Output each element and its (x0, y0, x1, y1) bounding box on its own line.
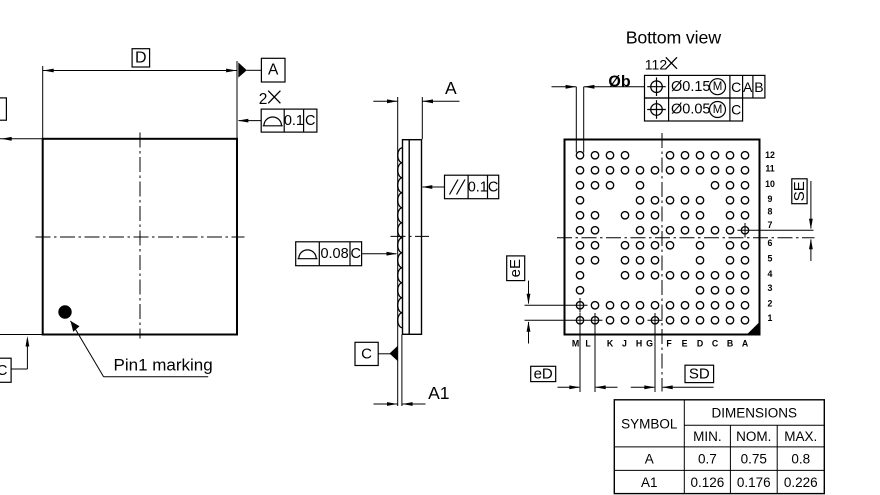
svg-text:0.75: 0.75 (741, 452, 767, 467)
top view horizontal centerline (36, 236, 245, 238)
position tolerance frame 0.15 M C A B (645, 75, 765, 98)
dimension D line (43, 70, 237, 72)
svg-text:SE: SE (791, 181, 808, 201)
svg-text:2: 2 (768, 298, 773, 308)
svg-text:0.8: 0.8 (791, 452, 810, 467)
svg-text:11: 11 (765, 163, 774, 173)
svg-text:9: 9 (768, 194, 773, 204)
side view solder balls (scallops) (398, 148, 403, 328)
dimension D label box (132, 49, 150, 67)
svg-text:0.1: 0.1 (284, 113, 304, 129)
svg-text:A: A (743, 79, 753, 95)
pin1 marking leader (71, 321, 104, 377)
pin1 marking dot (58, 305, 71, 318)
ball G1 crosshair and extension line (654, 313, 656, 392)
dimension SD line and arrows (631, 386, 655, 388)
svg-text:8: 8 (768, 206, 773, 216)
dimensions table (614, 400, 824, 494)
ball M2 crosshair and eE reference line (579, 298, 581, 313)
svg-text:Pin1 marking: Pin1 marking (114, 356, 213, 375)
svg-text:Bottom view: Bottom view (626, 27, 722, 47)
cut-off label box at left edge (top) (0, 98, 6, 120)
svg-text:Ø0.05: Ø0.05 (671, 102, 711, 118)
svg-text:0.1: 0.1 (468, 179, 488, 195)
ball grid (112 balls) (576, 152, 748, 324)
ball M1 crosshair and extension lines (579, 313, 581, 392)
svg-text:J: J (622, 338, 627, 348)
svg-text:SYMBOL: SYMBOL (621, 416, 678, 431)
svg-text:0.126: 0.126 (691, 475, 725, 490)
svg-text:A1: A1 (641, 475, 658, 490)
side view seating plane line (397, 97, 399, 406)
svg-text:C: C (712, 338, 719, 348)
svg-text:G: G (646, 338, 653, 348)
svg-text:D: D (135, 49, 147, 66)
svg-text:C: C (488, 179, 498, 195)
svg-text:0.7: 0.7 (698, 452, 717, 467)
top view package outline (43, 139, 237, 335)
dimension D extension line right (236, 61, 238, 139)
datum C flag (seating plane) (355, 342, 378, 365)
svg-text:D: D (697, 338, 703, 348)
datum C box (cut at left edge) (0, 358, 11, 382)
top edge extension line with arrow (cut dimension) (0, 138, 43, 140)
dimension eD line and arrows (558, 386, 580, 388)
svg-text:H: H (636, 338, 642, 348)
svg-text:A: A (742, 338, 749, 348)
svg-text:12: 12 (765, 150, 775, 160)
svg-text:1: 1 (768, 313, 773, 323)
parallelism frame 0.1 C (445, 175, 499, 199)
svg-text:B: B (727, 338, 733, 348)
svg-text:eE: eE (507, 259, 524, 277)
svg-text:A1: A1 (428, 383, 449, 403)
svg-text:eD: eD (534, 366, 553, 383)
svg-text:SD: SD (689, 366, 710, 383)
svg-text:Ø0.15: Ø0.15 (671, 79, 711, 95)
svg-text:0.176: 0.176 (737, 475, 771, 490)
dimension SD label box (685, 365, 714, 382)
dimension SE label box (792, 179, 807, 204)
svg-text:F: F (666, 338, 672, 348)
svg-text:C: C (351, 246, 361, 262)
bottom view package outline (565, 140, 760, 335)
svg-text:112: 112 (645, 56, 668, 72)
bottom view vertical centerline (661, 133, 663, 392)
package bottom face extension line (A1) (401, 335, 403, 407)
svg-text:0.08: 0.08 (320, 246, 348, 262)
datum A flag (238, 62, 247, 77)
leader arrow from 0.1 C frame (239, 120, 262, 122)
svg-text:4: 4 (768, 269, 773, 279)
svg-text:NOM.: NOM. (736, 429, 771, 444)
svg-text:MAX.: MAX. (784, 429, 817, 444)
svg-text:B: B (754, 79, 763, 95)
svg-text:6: 6 (768, 238, 773, 248)
svg-text:Øb: Øb (608, 73, 630, 90)
position tolerance frame 0.05 M C (645, 98, 743, 121)
side view centerline (391, 235, 430, 237)
svg-text:3: 3 (768, 283, 773, 293)
svg-text:K: K (607, 338, 614, 348)
dimension eE line and arrows (528, 281, 530, 304)
svg-text:C: C (731, 102, 741, 118)
svg-text:7: 7 (768, 220, 773, 230)
svg-text:5: 5 (768, 253, 773, 263)
dimension Ob line (552, 86, 577, 88)
svg-text:M: M (713, 81, 723, 93)
bottom edge extension line (0, 334, 43, 336)
side view body inner line (408, 140, 410, 335)
svg-text:M: M (572, 338, 579, 348)
profile tolerance frame 0.1 C (top view) (261, 109, 317, 132)
svg-text:L: L (585, 338, 591, 348)
dimension A extension line right (421, 97, 423, 139)
side view body outline (403, 140, 422, 335)
leader arrow from parallelism frame (423, 186, 445, 188)
ball A7 crosshair and SE reference line (744, 223, 746, 238)
dimension eD label box (531, 366, 556, 381)
datum C leader to bottom edge (11, 368, 27, 370)
dimension D extension line left (42, 66, 44, 138)
dimension Ob extension lines (575, 87, 577, 153)
svg-text:C: C (0, 362, 8, 379)
svg-text:0.226: 0.226 (784, 475, 818, 490)
leader arrow from 0.08 frame (362, 253, 397, 255)
dimension A line (373, 100, 397, 102)
svg-text:DIMENSIONS: DIMENSIONS (712, 406, 798, 421)
bottom view horizontal centerline (557, 237, 815, 239)
svg-text:C: C (731, 79, 741, 95)
svg-text:E: E (682, 338, 688, 348)
dimension A1 line (374, 403, 398, 405)
top view vertical centerline (139, 133, 141, 339)
profile tolerance frame 0.08 C (side view) (296, 242, 362, 266)
bottom view A1 corner chamfer (747, 323, 759, 335)
dimension eE label box (507, 256, 525, 281)
svg-text:A: A (445, 78, 457, 98)
ball L1 crosshair and extension line (594, 313, 596, 392)
svg-text:MIN.: MIN. (693, 429, 722, 444)
svg-text:C: C (305, 113, 315, 129)
svg-text:10: 10 (765, 179, 775, 189)
svg-text:M: M (713, 104, 723, 116)
svg-text:A: A (268, 62, 279, 79)
svg-text:C: C (361, 346, 372, 363)
dimension SE line and arrows (810, 181, 812, 229)
svg-text:2: 2 (259, 91, 268, 108)
svg-text:A: A (645, 452, 654, 467)
